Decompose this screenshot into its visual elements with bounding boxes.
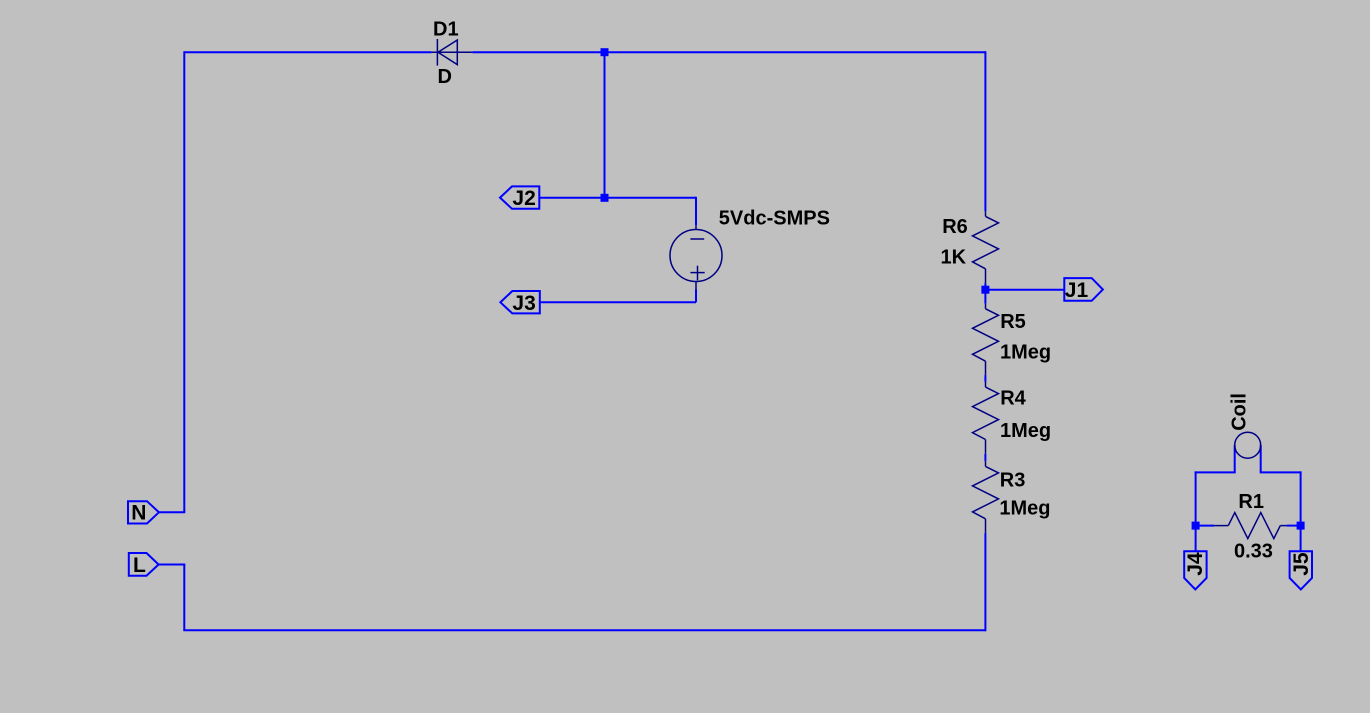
wire R1 left [1196, 525, 1214, 527]
wire R5 to R4 [984, 375, 986, 382]
svg-text:R4: R4 [1000, 388, 1026, 410]
svg-text:1Meg: 1Meg [1000, 341, 1051, 363]
wire coil left horizontal [1195, 471, 1236, 473]
wire R6 to junction J1 node [984, 283, 986, 304]
wire left vertical [183, 51, 185, 512]
port flag J2 [500, 186, 539, 208]
coil lamp circle [1235, 432, 1261, 458]
resistor R3 [973, 461, 999, 533]
port flag N [128, 501, 159, 523]
wire source bottom vertical [695, 290, 697, 303]
wire R4 to R3 [984, 454, 986, 461]
svg-text:D1: D1 [433, 19, 459, 41]
wire left vertical to J4 node [1195, 471, 1197, 525]
port flag J1 [1064, 278, 1103, 301]
svg-text:L: L [133, 554, 146, 577]
svg-text:N: N [131, 502, 146, 525]
resistor R4 [973, 382, 999, 454]
svg-text:1K: 1K [941, 246, 967, 268]
svg-text:1Meg: 1Meg [1000, 420, 1051, 442]
wire coil right stub [1260, 445, 1262, 472]
wire J4 stub [1195, 526, 1197, 552]
svg-text:J5: J5 [1290, 552, 1313, 576]
wire center vertical from top to J2 net [604, 52, 606, 198]
wire left lower vertical [183, 565, 185, 631]
svg-text:1Meg: 1Meg [999, 498, 1050, 520]
junction node J4 net [1192, 522, 1200, 530]
resistor R6 [973, 211, 999, 283]
svg-text:5Vdc-SMPS: 5Vdc-SMPS [719, 208, 830, 230]
wire node to J1 flag [985, 289, 1064, 291]
svg-text:J1: J1 [1065, 279, 1089, 302]
resistor R1 [1214, 513, 1287, 539]
port flag J5 [1290, 551, 1312, 589]
svg-text:J4: J4 [1184, 552, 1207, 576]
svg-text:D: D [438, 66, 452, 88]
wire top right segment [472, 51, 985, 53]
svg-text:J3: J3 [512, 292, 535, 315]
svg-text:0.33: 0.33 [1234, 540, 1273, 562]
resistor R5 [973, 304, 999, 376]
port flag J3 [500, 291, 539, 313]
wire J2 to source top [539, 197, 696, 199]
wire coil left stub [1234, 445, 1236, 472]
svg-text:R3: R3 [1000, 469, 1026, 491]
svg-text:R5: R5 [1000, 311, 1026, 333]
svg-text:J2: J2 [512, 187, 535, 210]
wire source top vertical [695, 197, 697, 226]
wire coil right horizontal [1260, 471, 1302, 473]
svg-text:Coil: Coil [1229, 393, 1251, 431]
diode D1 [432, 39, 473, 66]
svg-text:R6: R6 [942, 216, 968, 238]
wire R1 right [1287, 525, 1301, 527]
junction node top wire [601, 48, 609, 56]
junction node J2 net [601, 194, 609, 202]
svg-text:R1: R1 [1238, 491, 1264, 513]
wire source to J3 [540, 301, 696, 303]
port flag J4 [1184, 551, 1206, 589]
wire J5 stub [1300, 526, 1302, 552]
wire top left segment [184, 51, 431, 53]
junction node J1 net [981, 286, 989, 294]
wire right vertical to J5 node [1300, 471, 1302, 525]
wire N stub [159, 511, 185, 513]
junction node J5 net [1297, 522, 1305, 530]
wire bottom [183, 629, 985, 631]
wire L stub [159, 564, 186, 566]
wire right vertical above R6 [984, 51, 986, 211]
voltage source V1 5Vdc-SMPS [670, 225, 722, 290]
port flag L [129, 553, 159, 576]
wire R3 to bottom [984, 533, 986, 631]
